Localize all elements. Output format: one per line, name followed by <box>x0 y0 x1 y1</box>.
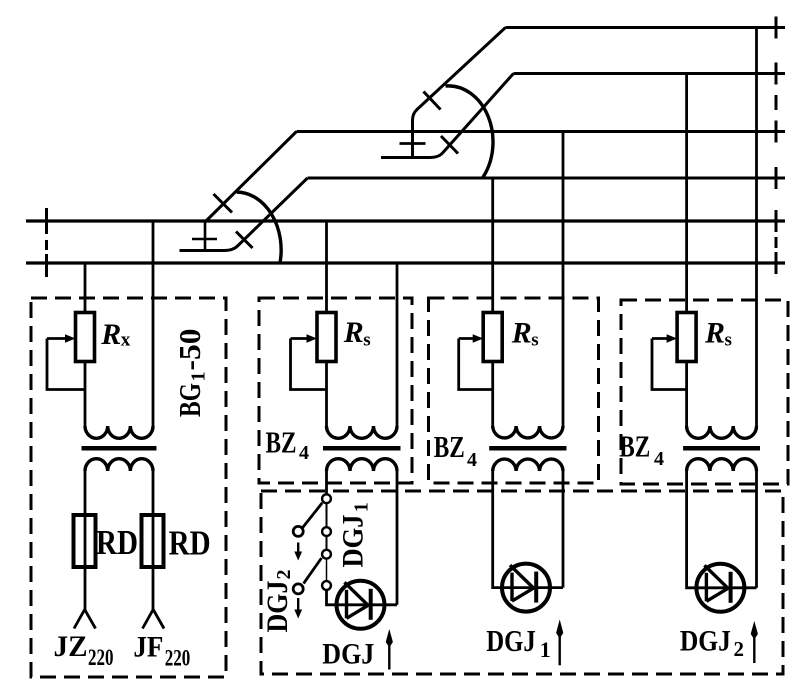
svg-text:4: 4 <box>299 442 309 464</box>
dashed box BG1-50 <box>31 298 226 677</box>
dashed box BZ4 #3 <box>621 300 788 484</box>
svg-text:4: 4 <box>654 448 664 470</box>
svg-text:BZ: BZ <box>266 424 297 459</box>
wire below R branch3 <box>491 362 494 429</box>
svg-text:DGJ: DGJ <box>261 581 294 633</box>
wiper arrow of R branch3 <box>459 337 475 340</box>
T2 diagonal B with bottom bar (to line2) <box>381 74 514 158</box>
wiper arrow of R branch2 <box>291 337 309 340</box>
T2 winding arc <box>446 86 494 178</box>
transformer core branch2 <box>323 446 401 451</box>
svg-text:DGJ: DGJ <box>337 515 370 568</box>
up arrow beside DGJ1 <box>559 635 561 665</box>
wire: branch2 secondary left to contact chain <box>325 471 328 494</box>
svg-text:2: 2 <box>273 570 295 580</box>
wire: branch1 secondary left <box>84 471 87 610</box>
label BG1-50 (rotated) <box>172 329 210 418</box>
transformer core branch1 <box>82 446 157 451</box>
transformer core branch4 <box>683 446 760 451</box>
lamp/diode DGJ2 <box>696 564 744 612</box>
svg-text:x: x <box>121 330 131 351</box>
svg-text:2: 2 <box>734 637 745 661</box>
fixed contact circle DGJ2 <box>293 584 303 594</box>
transformer T1 diagonal A (bus1 to line3) <box>205 132 297 223</box>
contact circle c1 <box>322 494 331 503</box>
dashed box BZ4 #2 <box>429 298 599 483</box>
T1 neutral/earth symbol <box>192 221 217 251</box>
wire: branch4 secondary right <box>755 471 758 588</box>
transformer secondary winding branch4 <box>687 459 757 471</box>
switch blade DGJ2 <box>304 558 322 584</box>
wiper arrow of R branch1 <box>47 337 67 340</box>
wire: line 4 (y=178) <box>308 177 786 180</box>
dashed box BZ4 #1 <box>259 298 412 483</box>
svg-text:1: 1 <box>351 502 373 512</box>
fuse RD left <box>74 515 96 567</box>
up arrow beside DGJ2 <box>753 636 755 663</box>
wire: branch4 left drop (line2 to Rs) <box>685 74 688 315</box>
svg-text:s: s <box>725 330 732 351</box>
breaker X on T2 diagonal A <box>424 92 441 110</box>
breaker X on T1 diagonal A <box>214 194 233 213</box>
svg-text:RD: RD <box>169 524 211 563</box>
transformer primary winding branch4 <box>687 426 757 438</box>
svg-text:220: 220 <box>165 646 191 671</box>
svg-text:RD: RD <box>96 523 138 562</box>
connector chevron JZ <box>74 610 96 629</box>
transformer secondary winding branch2 <box>327 459 398 471</box>
svg-text:s: s <box>363 329 370 350</box>
transformer secondary winding branch1 <box>85 459 153 471</box>
wire: branch3 right drop (line3 to transformer) <box>562 132 565 429</box>
svg-text:DGJ: DGJ <box>486 623 536 658</box>
contact circle c4 <box>322 581 331 590</box>
transformer primary winding branch2 <box>327 426 398 438</box>
wire c1-c2 <box>326 503 328 527</box>
wire: branch3 secondary right <box>562 471 565 588</box>
wire: branch2 right drop (bus2 to transformer) <box>396 263 399 428</box>
wire: branch3 secondary left <box>493 471 563 588</box>
resistor R branch1 <box>76 313 95 362</box>
wiper arrow of R branch4 <box>652 337 669 340</box>
resistor R branch4 <box>677 313 696 362</box>
T1 winding arc <box>237 192 282 263</box>
T2 neutral/earth tick <box>400 142 426 145</box>
contact circle c2 <box>322 527 331 536</box>
svg-text:-50: -50 <box>172 329 207 371</box>
fixed contact circle DGJ1 <box>293 526 303 536</box>
svg-text:R: R <box>100 318 121 351</box>
breaker X on T1 diagonal B <box>236 232 253 249</box>
right continuation dashed marks at x=776 <box>775 17 778 275</box>
svg-text:BZ: BZ <box>619 428 650 463</box>
dashed box relay panel <box>261 491 783 674</box>
bus 2 (y=263) <box>26 261 785 264</box>
svg-text:1: 1 <box>187 372 209 382</box>
wire: branch4 secondary left <box>687 471 757 588</box>
up arrow beside DGJ <box>388 644 390 670</box>
svg-text:DGJ: DGJ <box>680 624 731 657</box>
transformer core branch3 <box>489 446 566 451</box>
svg-text:220: 220 <box>88 645 114 670</box>
svg-text:1: 1 <box>540 637 551 662</box>
wire: branch1 left drop (bus2 to Rx) <box>84 263 87 314</box>
wire c3-c4 <box>326 559 328 582</box>
svg-text:R: R <box>511 317 532 350</box>
wire below R branch4 <box>685 362 688 429</box>
wire below R branch2 <box>325 362 328 429</box>
wire: top line 2 (y=73.5) <box>514 72 786 75</box>
svg-text:JZ: JZ <box>54 630 88 663</box>
connector chevron JF <box>143 610 165 629</box>
transformer primary winding branch1 <box>85 426 153 438</box>
svg-text:BG: BG <box>172 383 207 417</box>
T1 diagonal B with bottom bar (to line4) <box>180 178 308 251</box>
label DGJ1 (rotated, switch) <box>337 502 373 567</box>
left continuation dashed marks on buses <box>45 208 48 277</box>
svg-text:BZ: BZ <box>434 429 465 464</box>
svg-text:4: 4 <box>467 449 477 471</box>
wire: branch1 right drop (bus1 to transformer) <box>152 221 155 428</box>
wire c4 down to diode row <box>327 590 398 605</box>
wire: top line 1 (y=27.5) <box>506 26 786 29</box>
transformer primary winding branch3 <box>493 426 563 438</box>
wire below R branch1 <box>84 362 87 429</box>
transformer secondary winding branch3 <box>493 459 563 471</box>
contact circle c3 <box>322 550 331 559</box>
lamp/diode DGJ1 <box>502 564 550 612</box>
svg-text:DGJ: DGJ <box>322 637 374 670</box>
wire: branch4 right drop (line1 to transformer) <box>755 28 758 429</box>
wire: branch2 left drop (bus1 to Rs) <box>325 221 328 314</box>
switch blade DGJ1 <box>303 503 323 528</box>
svg-text:JF: JF <box>133 631 163 664</box>
actuation arrow DGJ2 <box>297 598 299 611</box>
wire c2-c3 <box>326 536 328 550</box>
svg-text:s: s <box>531 330 538 351</box>
bus 1 (y=221) <box>26 219 785 222</box>
svg-text:R: R <box>704 317 725 350</box>
resistor R branch3 <box>483 313 502 362</box>
fuse RD right <box>142 515 164 567</box>
actuation arrow DGJ1 <box>297 543 299 554</box>
svg-text:R: R <box>343 316 364 349</box>
wire: branch2 secondary right down <box>396 471 399 605</box>
label DGJ2 (rotated, switch) <box>261 570 295 633</box>
wire: branch3 left drop (line4 to Rs) <box>491 178 494 314</box>
lamp/diode DGJ <box>337 581 385 629</box>
transformer T2 diagonal A (line3 to line1) <box>413 28 506 158</box>
resistor R branch2 <box>317 313 336 362</box>
wire: line 3 (y=131.5) <box>297 130 786 133</box>
wire: branch1 secondary right <box>152 471 155 610</box>
breaker X on T2 diagonal B <box>441 136 458 154</box>
